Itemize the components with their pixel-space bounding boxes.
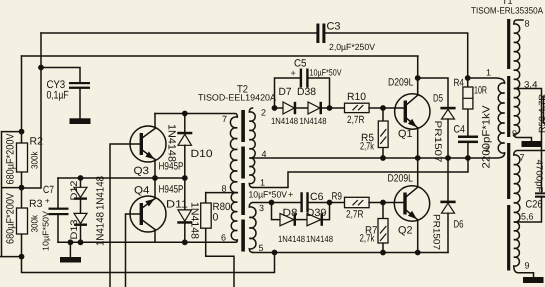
svg-text:D38: D38 — [297, 86, 316, 98]
svg-text:8: 8 — [525, 19, 530, 29]
wire Q1 emitter / Q2 collector column — [417, 158, 419, 186]
ground (chassis) — [60, 257, 81, 263]
svg-text:0,1µF: 0,1µF — [47, 90, 69, 102]
svg-text:C7: C7 — [43, 184, 54, 196]
svg-text:7: 7 — [520, 153, 525, 163]
svg-text:TISOM-ERL35350A: TISOM-ERL35350A — [471, 6, 543, 16]
resistor R3 300k — [17, 198, 43, 234]
svg-text:1N4148: 1N4148 — [95, 212, 107, 246]
svg-text:2,7k: 2,7k — [360, 233, 376, 245]
svg-text:D10: D10 — [191, 148, 213, 160]
capacitor C7 10uF*50V — [41, 178, 69, 251]
svg-text:2,0µF*250V: 2,0µF*250V — [329, 42, 375, 52]
svg-text:H945P: H945P — [159, 161, 184, 173]
svg-text:2,7k: 2,7k — [360, 141, 375, 153]
wire T2 pin8 tap — [206, 192, 238, 194]
svg-text:+: + — [291, 68, 296, 78]
T2 secondary winding pins 3-5 — [249, 203, 256, 253]
svg-text:R9: R9 — [332, 191, 343, 203]
svg-text:H945P: H945P — [159, 184, 184, 196]
svg-text:C6: C6 — [310, 191, 324, 203]
capacitor C26 4700pF — [535, 192, 545, 194]
capacitor CY3 — [41, 68, 90, 119]
node Q3 emitter / Q4 emitter — [152, 175, 158, 181]
T2 secondary winding pins 2-4-1 — [249, 108, 255, 188]
svg-text:3: 3 — [259, 203, 264, 213]
node R3 bottom / C2 bottom — [19, 254, 25, 260]
transistor Q4 H945P — [130, 178, 184, 242]
wire top rail with C3 — [41, 33, 468, 78]
diode D38 1N4148 — [297, 86, 344, 126]
svg-text:10µF*50V: 10µF*50V — [41, 211, 51, 251]
svg-text:PR1507: PR1507 — [431, 214, 442, 250]
svg-text:TISOD-EEL19420A: TISOD-EEL19420A — [198, 93, 276, 103]
svg-text:5: 5 — [259, 243, 264, 253]
node D12 anode / C7 top — [78, 175, 84, 181]
transformer T2 TISOD-EEL19420A — [198, 84, 276, 254]
wire Q3 base drive column — [110, 144, 140, 287]
svg-text:R2: R2 — [30, 136, 44, 148]
svg-text:1N4148: 1N4148 — [95, 176, 107, 210]
node D13 cathode — [78, 239, 84, 245]
node T2 pin3 / C6 left / D8 anode — [269, 200, 275, 206]
T2 primary winding pins 7-8-6 — [230, 117, 237, 240]
svg-text:4700pF: 4700pF — [535, 160, 545, 194]
transistor Q2 D209L — [388, 173, 430, 253]
svg-text:D39: D39 — [307, 207, 327, 219]
diode D7 1N4148 — [271, 86, 308, 126]
svg-text:680µF*200V: 680µF*200V — [5, 193, 17, 244]
svg-text:1N4148: 1N4148 — [189, 202, 201, 239]
svg-text:9: 9 — [512, 129, 517, 139]
node Q1 base / R10 / R5 — [380, 105, 386, 111]
wire T1 tap 5,6 to C26 — [515, 198, 542, 223]
svg-text:5,6: 5,6 — [521, 212, 534, 222]
svg-text:D5: D5 — [433, 93, 443, 105]
ground (chassis) at T1 pin9 lower — [523, 277, 544, 283]
node C4 bottom on rail — [465, 155, 471, 161]
diode D39 1N4148 — [306, 203, 333, 245]
node Q1 collector / rail2 / D5 — [415, 75, 421, 81]
svg-text:1N4148: 1N4148 — [300, 116, 327, 126]
svg-text:R10: R10 — [347, 91, 366, 103]
wire bottom emitter rail y242 — [58, 240, 237, 242]
T1 primary winding pins 1-2 — [498, 83, 504, 153]
T1 winding pins 7,5-6,9 — [514, 151, 545, 278]
node Q1 emitter / Q2 collector — [415, 155, 421, 161]
node divider midpoint R2-R3 — [19, 185, 25, 191]
diode D12 1N4148 — [69, 176, 107, 210]
svg-text:2,7R: 2,7R — [347, 114, 365, 126]
svg-text:10µF*50V: 10µF*50V — [249, 190, 288, 200]
svg-text:D209L: D209L — [388, 173, 414, 185]
wire T2 pin4 rail y158 to T1 pin2 — [252, 153, 505, 158]
svg-text:Q3: Q3 — [134, 165, 150, 177]
svg-text:1: 1 — [486, 68, 491, 78]
svg-text:0: 0 — [213, 212, 219, 224]
T1 core — [507, 19, 510, 69]
svg-text:R4: R4 — [454, 77, 465, 89]
svg-text:10µF*50V: 10µF*50V — [310, 68, 342, 78]
svg-text:300k: 300k — [30, 151, 40, 169]
node C5 left / D7 anode — [272, 105, 278, 111]
svg-text:D8: D8 — [283, 207, 298, 219]
wire left divider column — [22, 56, 275, 273]
svg-text:2200pF*1kV: 2200pF*1kV — [480, 106, 492, 169]
svg-text:D11: D11 — [166, 199, 188, 211]
wire R9 to Q2 base — [369, 202, 404, 204]
resistor R5 2,7k — [360, 108, 388, 158]
transistor Q3 H945P — [130, 114, 184, 179]
node R2 top / C1 top — [19, 129, 25, 135]
svg-text:D6: D6 — [454, 219, 464, 231]
wire second rail — [22, 56, 419, 95]
svg-text:7: 7 — [222, 114, 227, 124]
node R4 top / rail1 / T1 pin1 — [465, 75, 471, 81]
node Q2 base / R9 / R7 — [380, 200, 386, 206]
svg-text:Q4: Q4 — [134, 185, 150, 197]
node C6 right / D39 cathode / R9 — [327, 200, 333, 206]
node R7 bottom on rail — [380, 250, 386, 256]
T1 winding pins 8,3-4,9 — [514, 20, 532, 141]
svg-text:D209L: D209L — [388, 77, 414, 89]
svg-text:2,7R: 2,7R — [346, 209, 364, 221]
svg-text:1N4148: 1N4148 — [271, 116, 298, 126]
svg-text:Q1: Q1 — [398, 128, 413, 140]
svg-text:D12: D12 — [69, 181, 80, 201]
wire Q4 base drive column — [126, 214, 140, 287]
svg-text:3,4: 3,4 — [524, 80, 538, 90]
resistor R10 2,7R — [345, 91, 370, 126]
capacitor C3 — [316, 21, 375, 53]
svg-text:2: 2 — [261, 108, 266, 118]
svg-text:C26: C26 — [526, 199, 543, 211]
transformer T1 TISOM-ERL35350A — [471, 0, 545, 283]
svg-text:+: + — [45, 197, 50, 206]
wire T1 tap 3,4 to R58 — [515, 89, 542, 193]
wire CY3 column from rail1 down to R2/R3 midpoint — [22, 33, 42, 188]
wire T2 pin1 loop to C4 bottom — [253, 158, 468, 188]
svg-text:6: 6 — [221, 233, 226, 243]
capacitor C4 2200pF*1kV — [454, 106, 493, 169]
svg-text:8: 8 — [222, 184, 227, 194]
svg-text:D7: D7 — [279, 86, 292, 98]
wire R4 node to T1 pin1 — [468, 78, 505, 83]
diode D6 PR1507 — [431, 158, 464, 253]
svg-text:2: 2 — [485, 144, 490, 154]
svg-text:PR1507: PR1507 — [432, 121, 443, 163]
node D11 cathode — [182, 239, 188, 245]
capacitor C5 10uF*50V — [275, 58, 342, 109]
svg-text:1N4148: 1N4148 — [306, 234, 333, 244]
ground stub below C7/D13 — [69, 242, 71, 257]
svg-text:680µF*200V: 680µF*200V — [5, 134, 17, 185]
node CY3 tap on mains column — [38, 65, 44, 71]
capacitor C6 10uF*50V — [249, 190, 345, 213]
ground (chassis) below CY3 — [70, 118, 91, 124]
resistor R80 0 — [201, 193, 234, 287]
resistor R4 10R — [454, 77, 488, 136]
diode D11 1N4148 — [166, 178, 201, 242]
wire R10 to Q1 base — [369, 107, 404, 109]
transistor Q1 D209L — [388, 77, 430, 159]
svg-text:D13: D13 — [69, 220, 80, 240]
diode D10 1N4148 — [166, 114, 213, 179]
node C7 bottom ground tap — [68, 239, 74, 245]
T2 core — [241, 110, 245, 142]
svg-text:300k: 300k — [30, 215, 40, 233]
node Q2 emitter on rail — [415, 250, 421, 256]
node D10-D11 junction — [182, 175, 188, 181]
ground (chassis) at T1 pin9 upper — [522, 141, 542, 147]
wire emitter mid rail y178 — [58, 177, 185, 179]
node R5 bottom on rail — [380, 155, 386, 161]
node D5 anode / D6 cathode rail — [445, 155, 451, 161]
svg-text:1N4148: 1N4148 — [278, 234, 305, 244]
wire left edge 680uF column — [0, 132, 22, 257]
node T2 pin5 rail tap — [272, 250, 278, 256]
svg-text:C5: C5 — [294, 58, 307, 70]
diode D8 1N4148 — [272, 203, 308, 245]
svg-text:R58 4,7R: R58 4,7R — [537, 93, 545, 133]
node D10 cathode / T2 pin7 — [182, 111, 188, 117]
diode D5 PR1507 — [418, 78, 456, 163]
resistor R7 2,7k — [360, 203, 389, 253]
resistor R2 300k — [17, 136, 44, 173]
svg-text:C3: C3 — [327, 21, 341, 33]
svg-text:R3: R3 — [29, 198, 43, 210]
svg-text:10R: 10R — [474, 85, 487, 97]
diode D13 1N4148 — [69, 200, 107, 246]
wire T2 pin5 rail y252.5 — [253, 252, 448, 254]
svg-text:Q2: Q2 — [398, 225, 413, 237]
svg-text:1N4148: 1N4148 — [166, 124, 178, 162]
svg-text:+: + — [288, 190, 293, 200]
svg-text:9: 9 — [525, 261, 530, 271]
node C5 right / D38 cathode — [327, 105, 333, 111]
resistor R58 4,7R (cropped at right edge) — [544, 97, 545, 123]
svg-text:C4: C4 — [454, 124, 466, 136]
wire Q3 collector to T2 pin7 — [155, 114, 237, 118]
resistor R9 2,7R — [332, 191, 370, 221]
svg-text:1: 1 — [260, 178, 265, 188]
